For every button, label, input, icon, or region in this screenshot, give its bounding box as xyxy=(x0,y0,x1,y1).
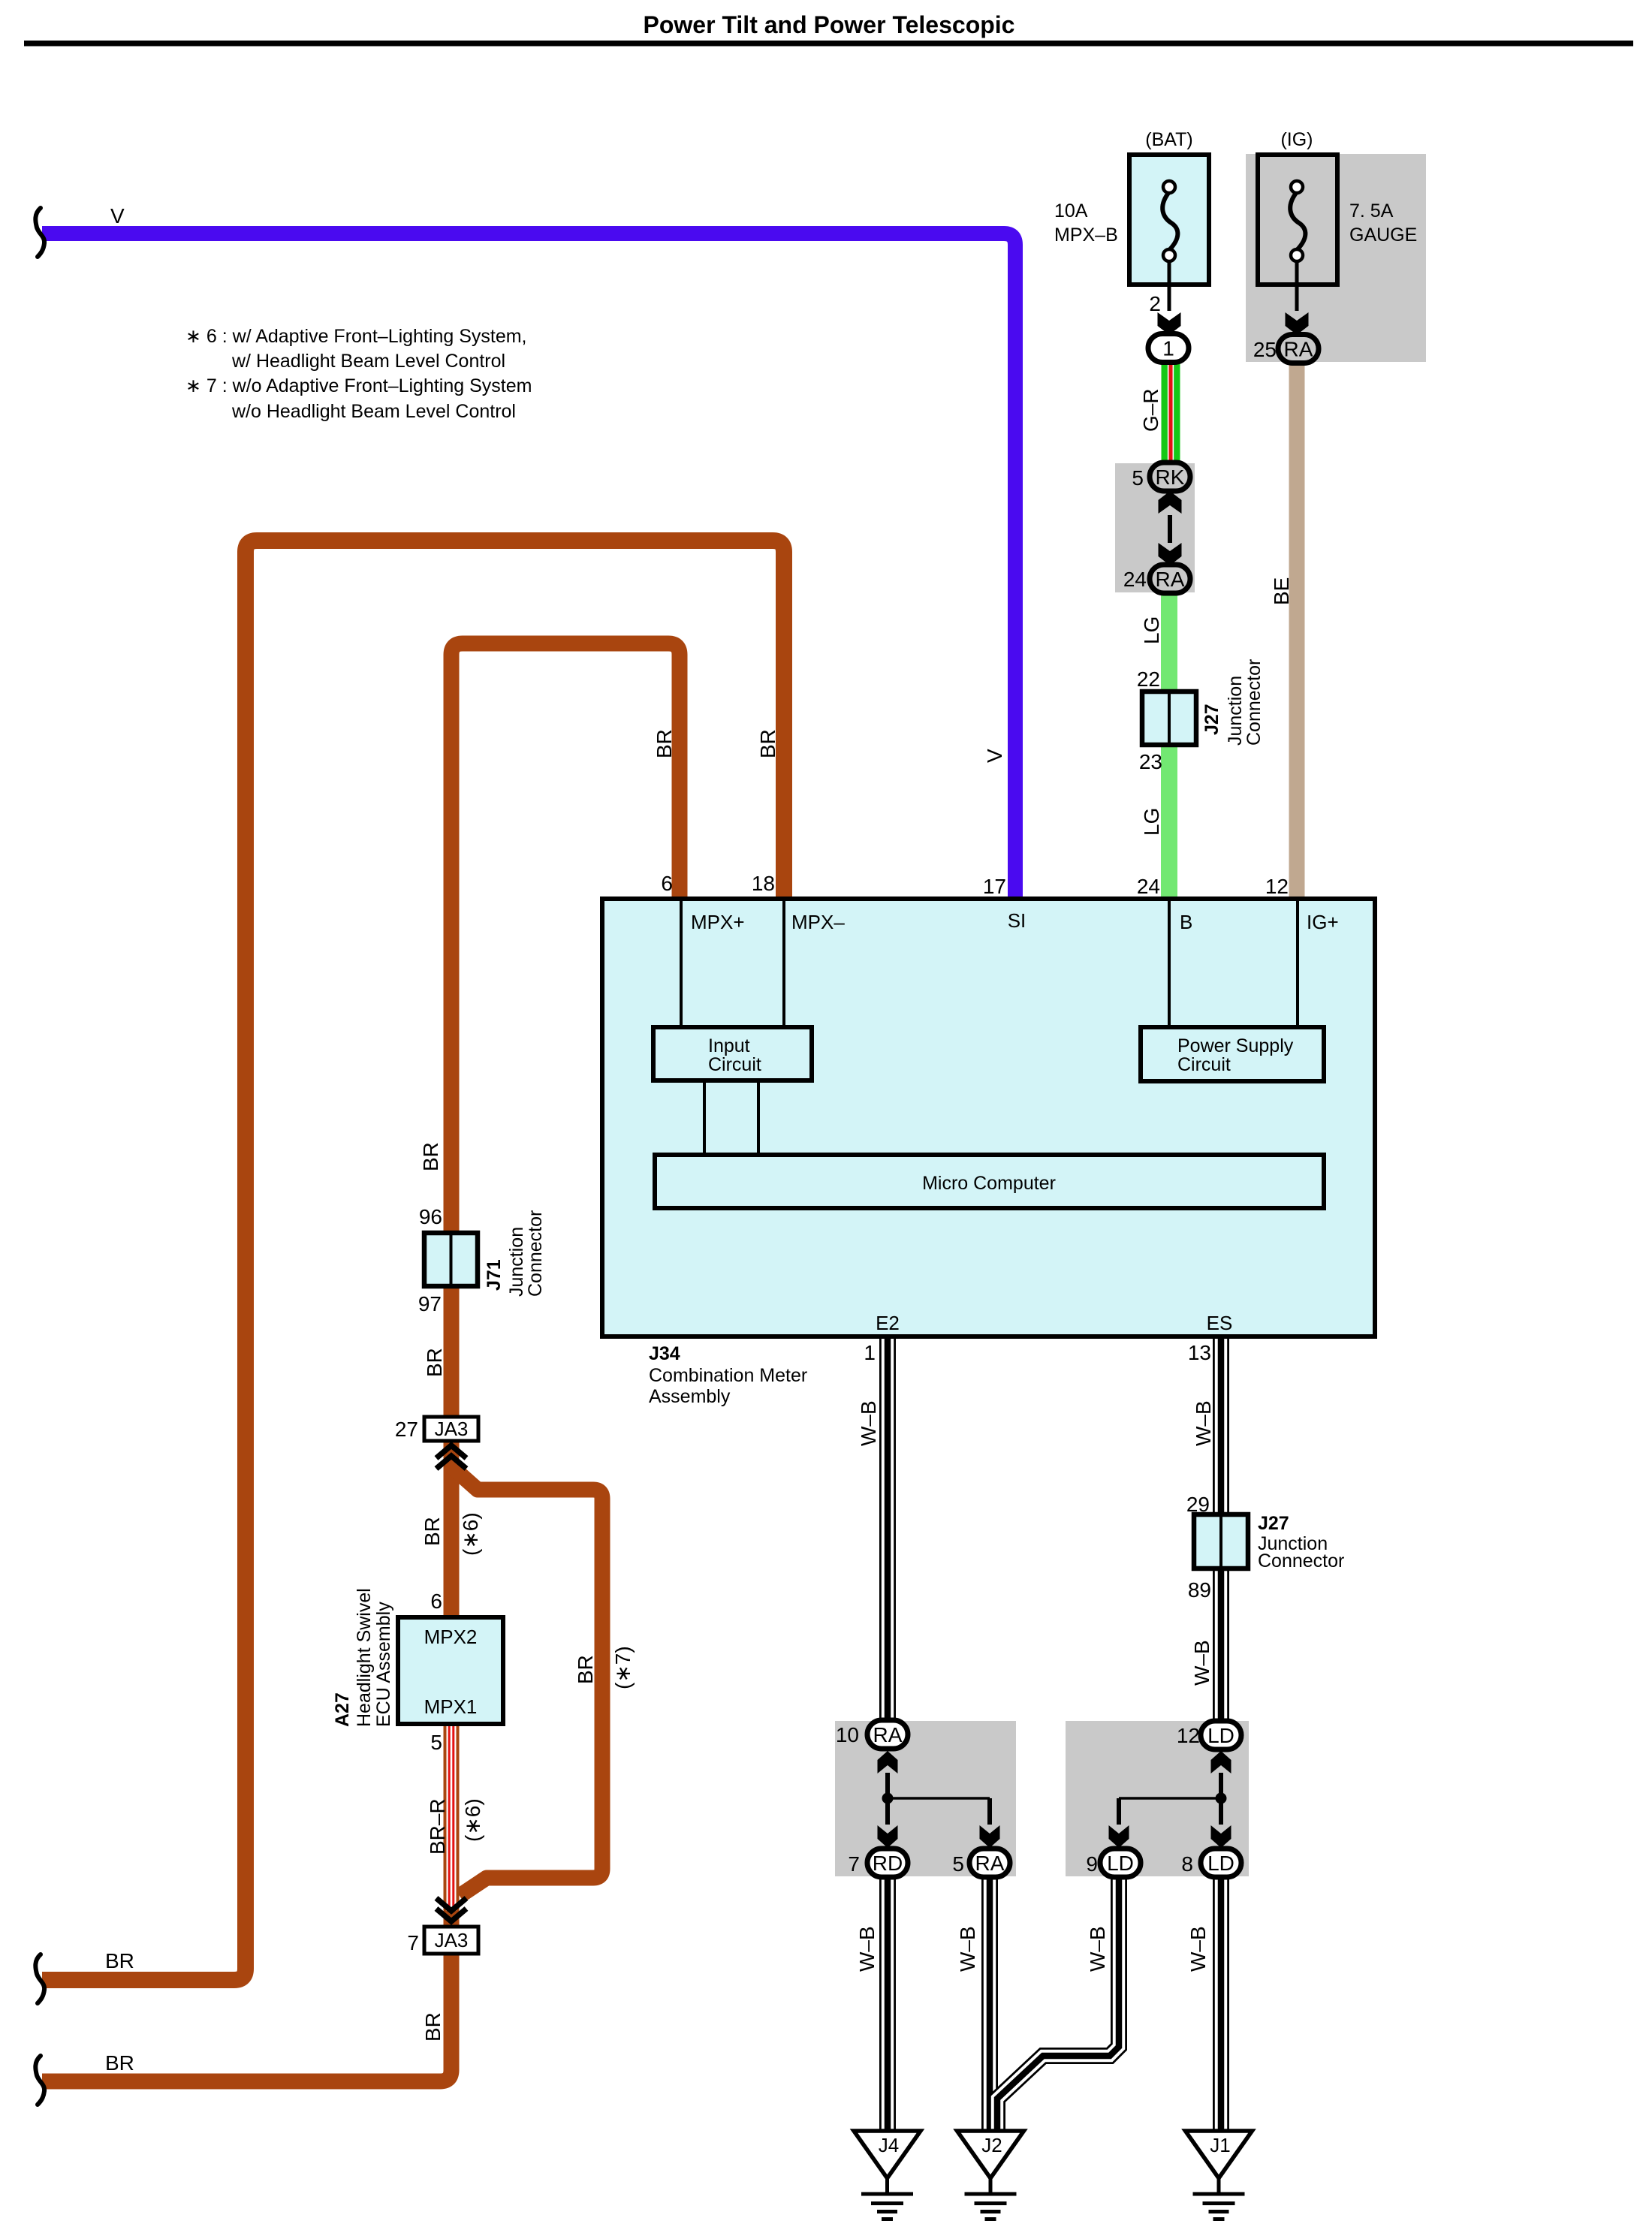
wire W-B from LD 8 to ground J1 xyxy=(1213,1877,1229,2131)
wire G-R fuse to RK xyxy=(1162,361,1180,463)
svg-text:J1: J1 xyxy=(1210,2134,1230,2156)
svg-text:BR: BR xyxy=(574,1655,597,1684)
svg-text:∗ 7 : w/o Adaptive Front–Light: ∗ 7 : w/o Adaptive Front–Lighting System xyxy=(185,375,532,396)
svg-text:Junction: Junction xyxy=(506,1227,527,1297)
input circuit box xyxy=(653,1027,812,1080)
svg-text:GAUGE: GAUGE xyxy=(1349,225,1417,246)
svg-text:(∗6): (∗6) xyxy=(459,1512,482,1556)
svg-text:MPX2: MPX2 xyxy=(424,1626,478,1648)
svg-text:Input: Input xyxy=(708,1035,750,1056)
svg-text:G–R: G–R xyxy=(1139,388,1162,432)
svg-text:JA3: JA3 xyxy=(435,1929,469,1951)
svg-text:BR: BR xyxy=(421,2012,445,2042)
svg-text:6: 6 xyxy=(661,872,673,895)
svg-text:Connector: Connector xyxy=(1244,659,1265,746)
lines input circuit to micro computer xyxy=(703,1080,706,1155)
wire BR J71 to JA3 pin 27 xyxy=(444,1286,460,1417)
svg-text:IG+: IG+ xyxy=(1307,911,1339,933)
svg-text:BE: BE xyxy=(1270,577,1293,605)
svg-text:2: 2 xyxy=(1149,292,1161,315)
svg-text:13: 13 xyxy=(1188,1341,1211,1364)
svg-text:Power Tilt and Power Telescopi: Power Tilt and Power Telescopic xyxy=(644,11,1015,38)
arrow into RA 25 xyxy=(1286,312,1309,335)
svg-text:W–B: W–B xyxy=(956,1926,979,1972)
arrow into connector 1 xyxy=(1158,312,1181,335)
svg-text:w/o Headlight Beam Level Contr: w/o Headlight Beam Level Control xyxy=(231,401,516,422)
wire BR outer loop: left break to J34 pin 18 MPX- xyxy=(42,541,784,1980)
svg-text:W–B: W–B xyxy=(857,1400,880,1446)
svg-text:12: 12 xyxy=(1177,1724,1200,1747)
svg-text:12: 12 xyxy=(1265,875,1289,898)
wire W-B from LD 9 to ground J2 (zigzag) xyxy=(997,1877,1119,2131)
svg-text:RA: RA xyxy=(873,1723,903,1746)
svg-text:J27: J27 xyxy=(1258,1513,1289,1534)
wire LG from J27 to J34 pin 24 B xyxy=(1161,745,1177,900)
svg-text:V: V xyxy=(110,204,125,228)
connector oval LD pin 8 xyxy=(1201,1849,1241,1877)
svg-text:BR: BR xyxy=(653,729,676,758)
connector JA3 pin 27 xyxy=(424,1417,478,1441)
svg-text:7. 5A: 7. 5A xyxy=(1349,200,1394,221)
svg-text:ECU Assembly: ECU Assembly xyxy=(373,1602,394,1727)
svg-text:BR: BR xyxy=(421,1517,444,1546)
svg-text:Connector: Connector xyxy=(1258,1550,1344,1572)
connector oval LD pin 9 xyxy=(1100,1849,1141,1877)
svg-text:25: 25 xyxy=(1253,338,1277,361)
svg-text:(IG): (IG) xyxy=(1280,129,1313,150)
svg-text:BR: BR xyxy=(105,2051,134,2075)
svg-text:Circuit: Circuit xyxy=(708,1054,761,1075)
svg-text:27: 27 xyxy=(395,1418,418,1441)
svg-text:J2: J2 xyxy=(981,2134,1002,2156)
svg-text:MPX+: MPX+ xyxy=(691,911,745,933)
svg-text:w/ Headlight Beam Level Contro: w/ Headlight Beam Level Control xyxy=(231,351,505,372)
connector oval 1 xyxy=(1148,334,1189,363)
svg-text:29: 29 xyxy=(1186,1493,1210,1516)
ground J1 xyxy=(1186,2131,1253,2178)
svg-text:BR: BR xyxy=(105,1949,134,1972)
break squiggle V wire xyxy=(35,208,44,257)
gray background IG fuse block xyxy=(1246,154,1426,362)
wire BR (*7) branch loop xyxy=(451,1466,602,1896)
svg-text:W–B: W–B xyxy=(1086,1926,1109,1972)
svg-text:BR–R: BR–R xyxy=(426,1798,449,1855)
connector oval RA pin 10 xyxy=(867,1720,908,1749)
svg-text:6: 6 xyxy=(430,1590,442,1613)
break squiggle BR wire 1 xyxy=(35,1954,44,2003)
svg-text:5: 5 xyxy=(1132,466,1144,490)
wire LG from RA to J27 xyxy=(1161,592,1177,692)
wire W-B from J34 ES pin 13 to J27 xyxy=(1213,1336,1229,1514)
svg-text:∗ 6 : w/ Adaptive Front–Lighti: ∗ 6 : w/ Adaptive Front–Lighting System, xyxy=(185,326,527,347)
gray box RA/RD splice block (left) xyxy=(835,1721,1016,1876)
splice RA 10 internals xyxy=(878,1751,898,1773)
wire BR inner loop: J34 pin 6 MPX+ to J71 xyxy=(451,643,680,1233)
svg-text:23: 23 xyxy=(1139,750,1162,773)
svg-text:J27: J27 xyxy=(1201,704,1222,735)
fuse 7.5A GAUGE (IG) xyxy=(1258,155,1337,285)
svg-text:J4: J4 xyxy=(879,2134,899,2156)
svg-text:22: 22 xyxy=(1137,667,1160,691)
svg-text:A27: A27 xyxy=(332,1692,353,1727)
wire BE from RA 25 to J34 pin 12 IG+ xyxy=(1289,363,1305,900)
connector oval RD pin 7 xyxy=(867,1849,908,1877)
svg-text:9: 9 xyxy=(1086,1852,1098,1876)
svg-text:MPX–B: MPX–B xyxy=(1054,225,1118,246)
wire BR (*6) JA3 to A27 pin 6 xyxy=(444,1441,460,1617)
svg-text:24: 24 xyxy=(1123,568,1147,591)
svg-text:RA: RA xyxy=(1284,338,1313,361)
svg-text:Micro Computer: Micro Computer xyxy=(922,1173,1056,1194)
J34 Combination Meter Assembly block xyxy=(602,899,1375,1336)
connector oval RA pin 24 xyxy=(1150,565,1190,593)
break squiggle BR wire 2 xyxy=(35,2056,44,2105)
wire W-B from J27 pin 89 to LD 12 xyxy=(1213,1569,1229,1721)
svg-text:5: 5 xyxy=(952,1852,964,1876)
junction connector J27 (top, LG wire) xyxy=(1142,692,1196,745)
power supply circuit box xyxy=(1141,1027,1324,1081)
svg-text:97: 97 xyxy=(418,1292,442,1315)
svg-text:89: 89 xyxy=(1188,1578,1211,1602)
svg-text:1: 1 xyxy=(1162,337,1174,360)
wire BR below JA3 pin 7 to left break xyxy=(42,1954,451,2081)
svg-text:RA: RA xyxy=(1156,568,1185,591)
svg-text:MPX1: MPX1 xyxy=(424,1695,478,1718)
ground J2 xyxy=(957,2131,1024,2178)
arrows between RK 5 and RA 24 xyxy=(1159,491,1182,514)
J34 internal pin lines xyxy=(680,901,683,1027)
svg-text:1: 1 xyxy=(864,1341,876,1364)
connector oval RA pin 5 xyxy=(969,1849,1010,1877)
svg-text:Power Supply: Power Supply xyxy=(1177,1035,1294,1056)
svg-text:V: V xyxy=(983,749,1006,763)
gray box LD splice block (right) xyxy=(1066,1721,1249,1876)
gray box RK/RA connector block xyxy=(1115,463,1195,592)
svg-text:Combination Meter: Combination Meter xyxy=(649,1365,807,1386)
svg-text:J34: J34 xyxy=(649,1343,680,1364)
svg-text:SI: SI xyxy=(1008,909,1026,932)
svg-text:RA: RA xyxy=(975,1852,1005,1875)
ground J4 xyxy=(854,2131,921,2178)
junction connector J27 (lower, W-B wire) xyxy=(1194,1514,1248,1569)
svg-text:18: 18 xyxy=(752,872,775,895)
svg-text:17: 17 xyxy=(983,875,1006,898)
connector oval LD pin 12 xyxy=(1201,1721,1241,1749)
svg-text:7: 7 xyxy=(848,1852,860,1876)
svg-text:Junction: Junction xyxy=(1225,676,1246,746)
svg-text:8: 8 xyxy=(1181,1852,1193,1876)
svg-text:(BAT): (BAT) xyxy=(1145,129,1192,150)
wire W-B from RA 5 to ground J2 xyxy=(981,1877,998,2131)
svg-text:BR: BR xyxy=(419,1142,442,1171)
svg-text:RK: RK xyxy=(1156,466,1185,489)
svg-text:BR: BR xyxy=(756,729,779,758)
connector oval RK pin 5 xyxy=(1150,463,1190,491)
svg-text:Assembly: Assembly xyxy=(649,1386,731,1407)
svg-text:E2: E2 xyxy=(876,1312,900,1334)
svg-text:J71: J71 xyxy=(484,1259,505,1291)
svg-text:10A: 10A xyxy=(1054,200,1088,221)
micro computer box xyxy=(655,1155,1324,1208)
svg-text:96: 96 xyxy=(419,1205,442,1228)
svg-text:ES: ES xyxy=(1207,1312,1233,1334)
svg-text:LG: LG xyxy=(1140,616,1163,644)
fuse 10A MPX-B (BAT) xyxy=(1129,155,1209,285)
connector JA3 pin 7 xyxy=(424,1927,478,1954)
svg-text:Circuit: Circuit xyxy=(1177,1054,1231,1075)
A27 Headlight Swivel ECU Assembly xyxy=(398,1617,503,1724)
svg-text:Headlight Swivel: Headlight Swivel xyxy=(354,1588,375,1727)
svg-text:24: 24 xyxy=(1137,875,1160,898)
svg-text:W–B: W–B xyxy=(855,1926,879,1972)
svg-text:5: 5 xyxy=(430,1731,442,1754)
svg-text:(∗7): (∗7) xyxy=(611,1646,635,1689)
splice LD 12 internals xyxy=(1211,1751,1231,1773)
svg-text:JA3: JA3 xyxy=(435,1418,469,1440)
wire W-B from J34 E2 pin 1 to RA 10 xyxy=(879,1336,896,1719)
svg-text:W–B: W–B xyxy=(1186,1926,1210,1972)
svg-text:LG: LG xyxy=(1140,808,1163,836)
svg-text:Connector: Connector xyxy=(525,1210,546,1297)
svg-text:LD: LD xyxy=(1207,1852,1234,1875)
svg-text:LD: LD xyxy=(1107,1852,1134,1875)
svg-text:BR: BR xyxy=(423,1348,446,1377)
svg-text:7: 7 xyxy=(407,1931,419,1954)
wire V (violet) from left break to J34 pin 17 SI xyxy=(42,234,1015,900)
svg-text:B: B xyxy=(1180,911,1192,933)
wire BR-R from A27 pin 5 MPX1 to JA3 pin 7 xyxy=(444,1724,460,1927)
svg-text:MPX–: MPX– xyxy=(791,911,845,933)
svg-text:10: 10 xyxy=(836,1723,859,1746)
wire W-B from RD 7 to ground J4 xyxy=(879,1877,896,2131)
svg-text:W–B: W–B xyxy=(1192,1400,1215,1446)
svg-text:W–B: W–B xyxy=(1190,1640,1213,1686)
svg-text:(∗6): (∗6) xyxy=(461,1798,484,1842)
junction connector J71 xyxy=(424,1233,478,1286)
svg-text:RD: RD xyxy=(873,1852,903,1875)
connector oval RA pin 25 xyxy=(1278,335,1319,363)
svg-text:LD: LD xyxy=(1207,1724,1234,1747)
